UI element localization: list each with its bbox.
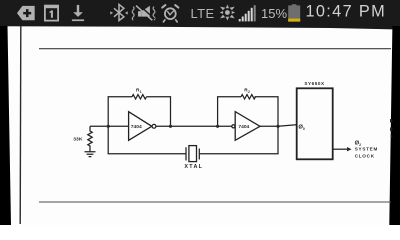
svg-text:7404: 7404 [131,124,142,130]
wire U2 output to SY650X [260,125,297,127]
output wire from SY650X [333,148,347,150]
svg-text:XTAL: XTAL [184,164,203,170]
left page black bar [0,26,11,225]
page edge vertical line [19,26,22,224]
resistor R2 [241,95,255,99]
vibrate mute icon [132,5,155,21]
page text fragments at right edge [390,119,392,137]
svg-text:SY650X: SY650X [304,81,325,86]
bluetooth icon [114,4,124,20]
svg-text:2: 2 [248,90,250,94]
signal bars [239,5,256,21]
wire 33K node to inverter 1 input [90,125,129,127]
junction node at U1 input [107,125,110,128]
calendar "1" icon [44,5,59,22]
tag icon with plus [17,6,35,20]
svg-text:33K: 33K [73,137,83,143]
inverter U2 input bubble [232,125,235,128]
svg-text:15%: 15% [261,6,287,21]
svg-text:LTE: LTE [191,6,215,21]
junction node at U2 input [216,125,219,128]
junction node at U2 output [276,125,279,128]
crystal XTAL body [189,146,197,162]
download icon [72,5,84,21]
ground [85,152,96,157]
brightness sun icon [220,5,235,21]
resistor 33K [88,126,92,151]
time 10:47 PM [306,3,387,21]
SY650X box U3 [297,88,333,159]
LTE text [191,6,215,21]
svg-text:0: 0 [303,127,305,131]
15% text [261,6,287,21]
feedback loop R1 wires [108,97,170,127]
right page black bar [389,26,400,225]
status bar background [0,0,400,26]
bottom horizontal rule [39,201,391,203]
svg-text:7404: 7404 [238,124,249,130]
svg-text:SYSTEM: SYSTEM [355,147,378,152]
svg-text:10:47 PM: 10:47 PM [306,3,387,21]
crystal loop bottom wire left [108,126,186,154]
alarm clock icon [162,5,178,22]
status bar lower wedge [0,26,400,30]
junction node at U1 output [169,125,172,128]
svg-text:1: 1 [140,90,142,94]
top horizontal rule [39,48,391,50]
battery icon [288,4,300,21]
svg-text:CLOCK: CLOCK [355,153,375,158]
wire U1 output to U2 input [156,125,232,127]
feedback loop R2 wires [218,97,278,127]
inverter U1 triangle [129,112,152,141]
inverter U1 output bubble [152,124,156,128]
arrowhead system clock [347,147,352,151]
crystal loop bottom wire right [199,126,278,154]
crystal XTAL plates [186,147,199,160]
inverter U2 triangle [235,112,260,141]
resistor R1 [132,95,146,99]
